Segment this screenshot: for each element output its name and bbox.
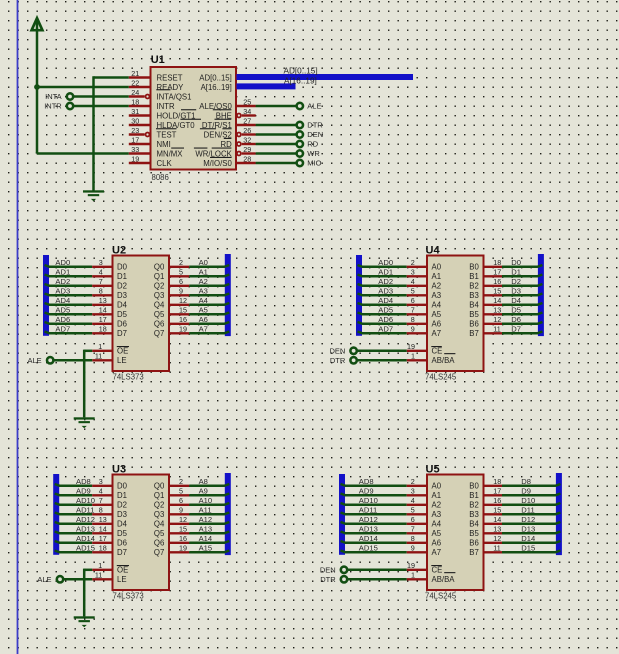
svg-text:AD2: AD2 [55,277,70,286]
svg-text:A5: A5 [432,529,442,538]
svg-text:D5: D5 [117,310,128,319]
svg-text:D2: D2 [117,282,127,291]
svg-text:CE: CE [432,347,443,356]
svg-text:18: 18 [493,477,501,486]
svg-text:30: 30 [131,116,139,125]
svg-text:9: 9 [411,325,415,334]
svg-text:AD8: AD8 [76,477,91,486]
svg-text:AB/BA: AB/BA [432,356,456,365]
svg-text:RD: RD [307,140,318,149]
wire to node DEN [256,133,296,136]
svg-text:18: 18 [493,258,501,267]
svg-text:16: 16 [493,496,501,505]
svg-text:2: 2 [411,477,415,486]
U1 pin 17 NMI [129,143,151,145]
U5 pin 1 AB/BA [407,578,427,580]
svg-text:11: 11 [493,325,500,334]
svg-text:A7: A7 [199,324,208,333]
svg-text:B6: B6 [469,539,479,548]
bus right of U4 [538,254,544,336]
svg-text:23: 23 [131,126,139,135]
svg-text:3: 3 [411,487,415,496]
svg-text:16: 16 [179,534,187,543]
svg-text:D6: D6 [117,320,127,329]
svg-text:NMI: NMI [157,140,171,149]
svg-text:4: 4 [411,496,415,505]
U4 wire/net D1 pin 17 B1 [484,275,503,277]
node RD [297,141,303,147]
svg-text:A9: A9 [199,486,208,495]
U1 pin 18 INTR [129,105,151,107]
svg-text:12: 12 [179,296,187,305]
U4 wire/net AD4 pin 6 A4 [362,304,407,307]
svg-text:14: 14 [99,306,107,315]
U5 wire/net AD8 pin 2 A0 [345,485,407,488]
bus right of U3 [225,473,231,555]
svg-text:8: 8 [411,534,415,543]
U3 wire/net AD13 pin 14 D5 [59,532,92,535]
node WR [297,150,303,156]
svg-text:8: 8 [411,315,415,324]
svg-text:AD14: AD14 [76,534,95,543]
svg-text:B7: B7 [469,329,479,338]
svg-text:RD: RD [221,140,233,149]
svg-text:B6: B6 [469,320,479,329]
svg-text:A[16..19]: A[16..19] [201,83,232,92]
svg-text:25: 25 [243,97,251,106]
svg-text:MIO: MIO [307,159,321,168]
svg-text:D1: D1 [117,272,127,281]
svg-text:AD10: AD10 [76,496,95,505]
svg-text:D0: D0 [511,258,521,267]
U2 wire/net A4 pin 12 Q4 [169,304,189,306]
svg-text:U5: U5 [426,464,440,476]
svg-text:A6: A6 [432,539,442,548]
U5 wire/net AD9 pin 3 A1 [345,494,407,497]
svg-text:5: 5 [411,287,415,296]
svg-text:18: 18 [99,544,107,553]
svg-text:AD9: AD9 [76,486,91,495]
U2 wire/net AD7 pin 18 D7 [49,332,92,335]
svg-text:Q1: Q1 [154,272,164,281]
bus right of U5 [556,473,562,555]
svg-text:12: 12 [493,315,501,324]
svg-text:15: 15 [493,287,501,296]
svg-text:16: 16 [493,277,501,286]
junction VCC-READY [34,84,40,90]
U4 wire/net D3 pin 15 B3 [484,294,503,296]
svg-text:AD0: AD0 [55,258,70,267]
U4 wire/net AD0 pin 2 A0 [362,266,407,269]
svg-text:ALE: ALE [307,102,321,111]
svg-text:6: 6 [179,496,183,505]
svg-text:A2: A2 [199,277,208,286]
svg-text:AD2: AD2 [378,277,393,286]
svg-text:1: 1 [411,571,415,580]
U5 wire/net D10 pin 16 B2 [484,504,503,506]
svg-text:Q5: Q5 [154,310,165,319]
svg-text:2: 2 [179,477,183,486]
svg-text:A1: A1 [432,491,442,500]
svg-text:AD15: AD15 [359,543,378,552]
svg-text:ALE: ALE [28,356,42,365]
U5 wire/net D12 pin 14 B4 [484,523,503,525]
U1 pin 24 INTA/QS1 [129,95,145,97]
U2 wire/net A6 pin 16 Q6 [169,323,189,325]
U3 wire/net AD8 pin 3 D0 [59,485,92,488]
transceiver U5 74LS245 body [427,475,484,591]
svg-text:A4: A4 [432,520,442,529]
svg-text:D8: D8 [521,477,531,486]
svg-text:32: 32 [243,135,251,144]
wire to node WR [256,152,296,155]
svg-text:26: 26 [243,126,251,135]
svg-text:AD13: AD13 [359,524,378,533]
svg-text:3: 3 [99,258,103,267]
svg-text:D12: D12 [521,515,535,524]
svg-text:B0: B0 [469,482,479,491]
svg-text:A6: A6 [199,315,208,324]
wire DEN to CE U4 [357,350,406,353]
svg-text:D11: D11 [521,505,534,514]
bus AD[0..15] [237,74,414,80]
svg-text:CE: CE [432,566,443,575]
U5 wire/net AD10 pin 4 A2 [345,504,407,507]
svg-text:OE: OE [117,347,128,356]
svg-text:AD12: AD12 [359,515,378,524]
U3 wire/net A11 pin 9 Q3 [169,513,189,515]
svg-text:5: 5 [179,268,183,277]
svg-text:A7: A7 [432,329,442,338]
svg-text:6: 6 [411,515,415,524]
svg-text:12: 12 [179,515,187,524]
svg-text:3: 3 [411,268,415,277]
svg-text:A4: A4 [432,301,442,310]
svg-text:AD9: AD9 [359,486,374,495]
svg-text:Q4: Q4 [154,301,165,310]
U1 pin 26 [237,133,241,137]
U5 wire/net D15 pin 11 B7 [484,551,503,553]
svg-text:D13: D13 [521,524,535,533]
U2 wire/net A5 pin 15 Q5 [169,313,189,315]
svg-text:D9: D9 [521,486,531,495]
svg-text:D0: D0 [117,263,128,272]
U1 pin 23 TEST [129,133,145,135]
U3 pin 11 LE [92,578,112,580]
svg-text:D6: D6 [511,315,521,324]
wire to node RD [256,143,296,146]
svg-text:AD4: AD4 [378,296,393,305]
wire to node DTR [256,124,296,127]
svg-text:Q6: Q6 [154,539,164,548]
svg-text:17: 17 [131,135,139,144]
svg-text:74LS245: 74LS245 [425,373,457,382]
svg-text:B3: B3 [469,510,479,519]
svg-text:B1: B1 [469,491,479,500]
U1 pin 32 [237,142,241,146]
svg-text:14: 14 [493,515,501,524]
svg-text:6: 6 [179,277,183,286]
svg-text:19: 19 [131,154,139,163]
svg-text:A6: A6 [432,320,442,329]
svg-text:A3: A3 [432,291,442,300]
U5 wire/net D13 pin 13 B5 [484,532,503,534]
svg-text:OE: OE [117,566,128,575]
latch U3 74LS373 body [113,475,170,591]
svg-text:A15: A15 [199,543,213,552]
svg-text:Q6: Q6 [154,320,164,329]
svg-text:A0: A0 [432,482,442,491]
svg-text:D3: D3 [117,510,127,519]
wire RESET to ground [94,76,129,79]
svg-text:B7: B7 [469,548,479,557]
ground GND1 [83,190,104,201]
svg-text:16: 16 [179,315,187,324]
svg-text:A1: A1 [432,272,442,281]
svg-text:19: 19 [179,325,187,334]
U1 pin 30 HLDA/GT0 [129,124,151,126]
U4 wire/net AD2 pin 4 A2 [362,285,407,288]
U4 wire/net AD5 pin 7 A5 [362,313,407,316]
U4 pin 1 AB/BA [407,359,427,361]
svg-text:DEN: DEN [320,566,336,575]
U3 wire/net A10 pin 6 Q2 [169,504,189,506]
svg-text:AD[0..15]: AD[0..15] [284,67,318,76]
svg-text:D6: D6 [117,539,127,548]
svg-text:34: 34 [243,107,251,116]
svg-text:5: 5 [411,506,415,515]
svg-text:Q2: Q2 [154,501,164,510]
svg-text:M/IO/S0: M/IO/S0 [203,159,232,168]
svg-text:D4: D4 [117,520,128,529]
node INTA [67,93,73,99]
svg-text:4: 4 [99,268,103,277]
node DEN at U5 [341,567,347,573]
svg-text:11: 11 [95,571,102,580]
node ALE at U2 [47,357,53,363]
wire to node ALE [256,105,296,108]
node DTR [297,122,303,128]
svg-text:AD3: AD3 [378,286,393,295]
U2 pin 1 OE [92,350,112,352]
svg-text:33: 33 [131,145,139,154]
svg-text:INTA: INTA [45,92,62,101]
svg-text:D2: D2 [511,277,521,286]
U5 wire/net D11 pin 15 B3 [484,513,503,515]
node DEN [297,131,303,137]
svg-text:D7: D7 [117,548,127,557]
svg-text:4: 4 [99,487,103,496]
page border [17,0,19,654]
svg-text:A3: A3 [199,286,208,295]
svg-text:AD5: AD5 [55,305,70,314]
svg-text:AD[0..15]: AD[0..15] [199,73,232,82]
U5 wire/net D8 pin 18 B0 [484,485,503,487]
svg-text:ALE: ALE [37,575,51,584]
U2 pin 11 LE [92,359,112,361]
svg-text:D5: D5 [117,529,128,538]
svg-text:14: 14 [99,525,107,534]
U4 wire/net D2 pin 16 B2 [484,285,503,287]
U2 wire/net AD5 pin 14 D5 [49,313,92,316]
U5 wire/net AD11 pin 5 A3 [345,513,407,516]
wire READY to VCC [37,86,129,89]
svg-text:AD4: AD4 [55,296,70,305]
svg-text:Q0: Q0 [154,263,165,272]
svg-text:9: 9 [179,287,183,296]
U1 pin 22 READY [129,86,151,88]
U4 wire/net AD7 pin 9 A7 [362,332,407,335]
svg-text:A2: A2 [432,282,442,291]
wire MN/MX to VCC [36,152,39,153]
svg-text:READY: READY [157,83,185,92]
svg-text:Q0: Q0 [154,482,165,491]
U1 pin 21 RESET [129,76,151,78]
svg-text:AD6: AD6 [378,315,393,324]
svg-text:Q3: Q3 [154,510,164,519]
svg-text:A11: A11 [199,505,212,514]
svg-text:B2: B2 [469,501,479,510]
svg-text:8: 8 [99,287,103,296]
svg-text:1: 1 [98,342,102,351]
svg-text:11: 11 [493,544,500,553]
U3 wire/net A8 pin 2 Q0 [169,485,189,487]
svg-text:9: 9 [179,506,183,515]
svg-text:A0: A0 [432,263,442,272]
svg-text:A12: A12 [199,515,213,524]
svg-text:DEN: DEN [307,130,323,139]
svg-text:8086: 8086 [152,173,169,182]
svg-text:17: 17 [493,268,501,277]
svg-text:INTR: INTR [44,102,62,111]
svg-text:LE: LE [117,575,127,584]
svg-text:A2: A2 [432,501,442,510]
svg-text:U1: U1 [151,54,165,66]
svg-text:D1: D1 [511,267,521,276]
svg-text:U4: U4 [426,245,441,257]
bus left of U5 [339,474,345,555]
svg-text:DTR: DTR [320,575,336,584]
svg-text:Q4: Q4 [154,520,165,529]
U4 wire/net D4 pin 14 B4 [484,304,503,306]
svg-text:24: 24 [131,88,139,97]
U3 pin 1 OE [92,569,112,571]
svg-text:A5: A5 [199,305,208,314]
U1 pin 27 [236,124,256,126]
svg-text:A8: A8 [199,477,208,486]
U2 wire/net A7 pin 19 Q7 [169,332,189,334]
svg-text:Q7: Q7 [154,329,164,338]
U5 wire/net D9 pin 17 B1 [484,494,503,496]
U5 wire/net AD13 pin 7 A5 [345,532,407,535]
bus A[16..19] [237,83,296,89]
svg-text:B0: B0 [469,263,479,272]
svg-text:18: 18 [99,325,107,334]
svg-text:DTR: DTR [330,356,346,365]
U4 wire/net D0 pin 18 B0 [484,266,503,268]
node DTR at U4 [350,357,356,363]
svg-text:12: 12 [493,534,501,543]
svg-text:RESET: RESET [157,73,183,82]
U1 pin 28 [236,162,256,164]
node ALE [297,103,303,109]
wire DEN to CE U5 [348,569,407,572]
U1 pin 31 HOLD/GT1 [129,114,151,116]
wire INTR [74,105,129,108]
svg-text:INTR: INTR [157,102,176,111]
svg-text:AD7: AD7 [55,324,70,333]
U1 overline marks [156,89,170,90]
U3 wire/net AD9 pin 4 D1 [59,494,92,497]
svg-text:7: 7 [99,277,103,286]
svg-text:Q5: Q5 [154,529,165,538]
wire ALE to LE U3 [64,578,92,581]
U2 wire/net A0 pin 2 Q0 [169,266,189,268]
svg-text:A4: A4 [199,296,208,305]
svg-text:2: 2 [179,258,183,267]
U2 wire/net A1 pin 5 Q1 [169,275,189,277]
svg-text:3: 3 [99,477,103,486]
bus left of U2 [43,255,49,336]
svg-text:11: 11 [95,352,102,361]
wire INTA [74,95,129,98]
svg-text:AD11: AD11 [76,505,94,514]
svg-text:1: 1 [411,352,415,361]
wire DTR to AB/BA U5 [348,578,407,581]
wire DTR to AB/BA U4 [357,359,406,362]
svg-text:D7: D7 [117,329,127,338]
wire OE to ground U3 [84,569,92,572]
svg-text:5: 5 [179,487,183,496]
bus left of U3 [53,474,59,555]
svg-text:Q2: Q2 [154,282,164,291]
svg-text:Q3: Q3 [154,291,164,300]
U3 wire/net A14 pin 16 Q6 [169,542,189,544]
svg-text:D2: D2 [117,501,127,510]
bus left of U4 [356,255,362,336]
U1 pin 34 [237,114,241,118]
svg-text:AD3: AD3 [55,286,70,295]
U2 wire/net AD6 pin 17 D6 [49,323,92,326]
svg-text:28: 28 [243,154,251,163]
svg-text:74LS245: 74LS245 [425,592,457,601]
ground at U3 [74,616,95,627]
U1 pin 33 MN/MX [129,152,151,154]
svg-text:A5: A5 [432,310,442,319]
svg-text:31: 31 [131,107,139,116]
svg-text:DTR: DTR [307,121,323,130]
U5 wire/net AD14 pin 8 A6 [345,542,407,545]
power VCC [32,18,43,30]
svg-text:A13: A13 [199,524,213,533]
svg-text:A7: A7 [432,548,442,557]
svg-text:U3: U3 [112,464,126,476]
U4 pin 19 CE [407,350,427,352]
svg-text:74LS373: 74LS373 [113,592,144,601]
svg-text:7: 7 [411,525,415,534]
U4 wire/net AD3 pin 5 A3 [362,294,407,297]
svg-text:6: 6 [411,296,415,305]
U3 wire/net AD12 pin 13 D4 [59,523,92,526]
svg-text:A1: A1 [199,267,208,276]
wire ALE to LE U2 [54,359,92,362]
svg-text:D4: D4 [117,301,128,310]
svg-text:AD0: AD0 [378,258,393,267]
svg-text:AD12: AD12 [76,515,95,524]
svg-text:B5: B5 [469,310,479,319]
svg-text:MN/MX: MN/MX [157,149,184,158]
svg-text:AD1: AD1 [378,267,393,276]
